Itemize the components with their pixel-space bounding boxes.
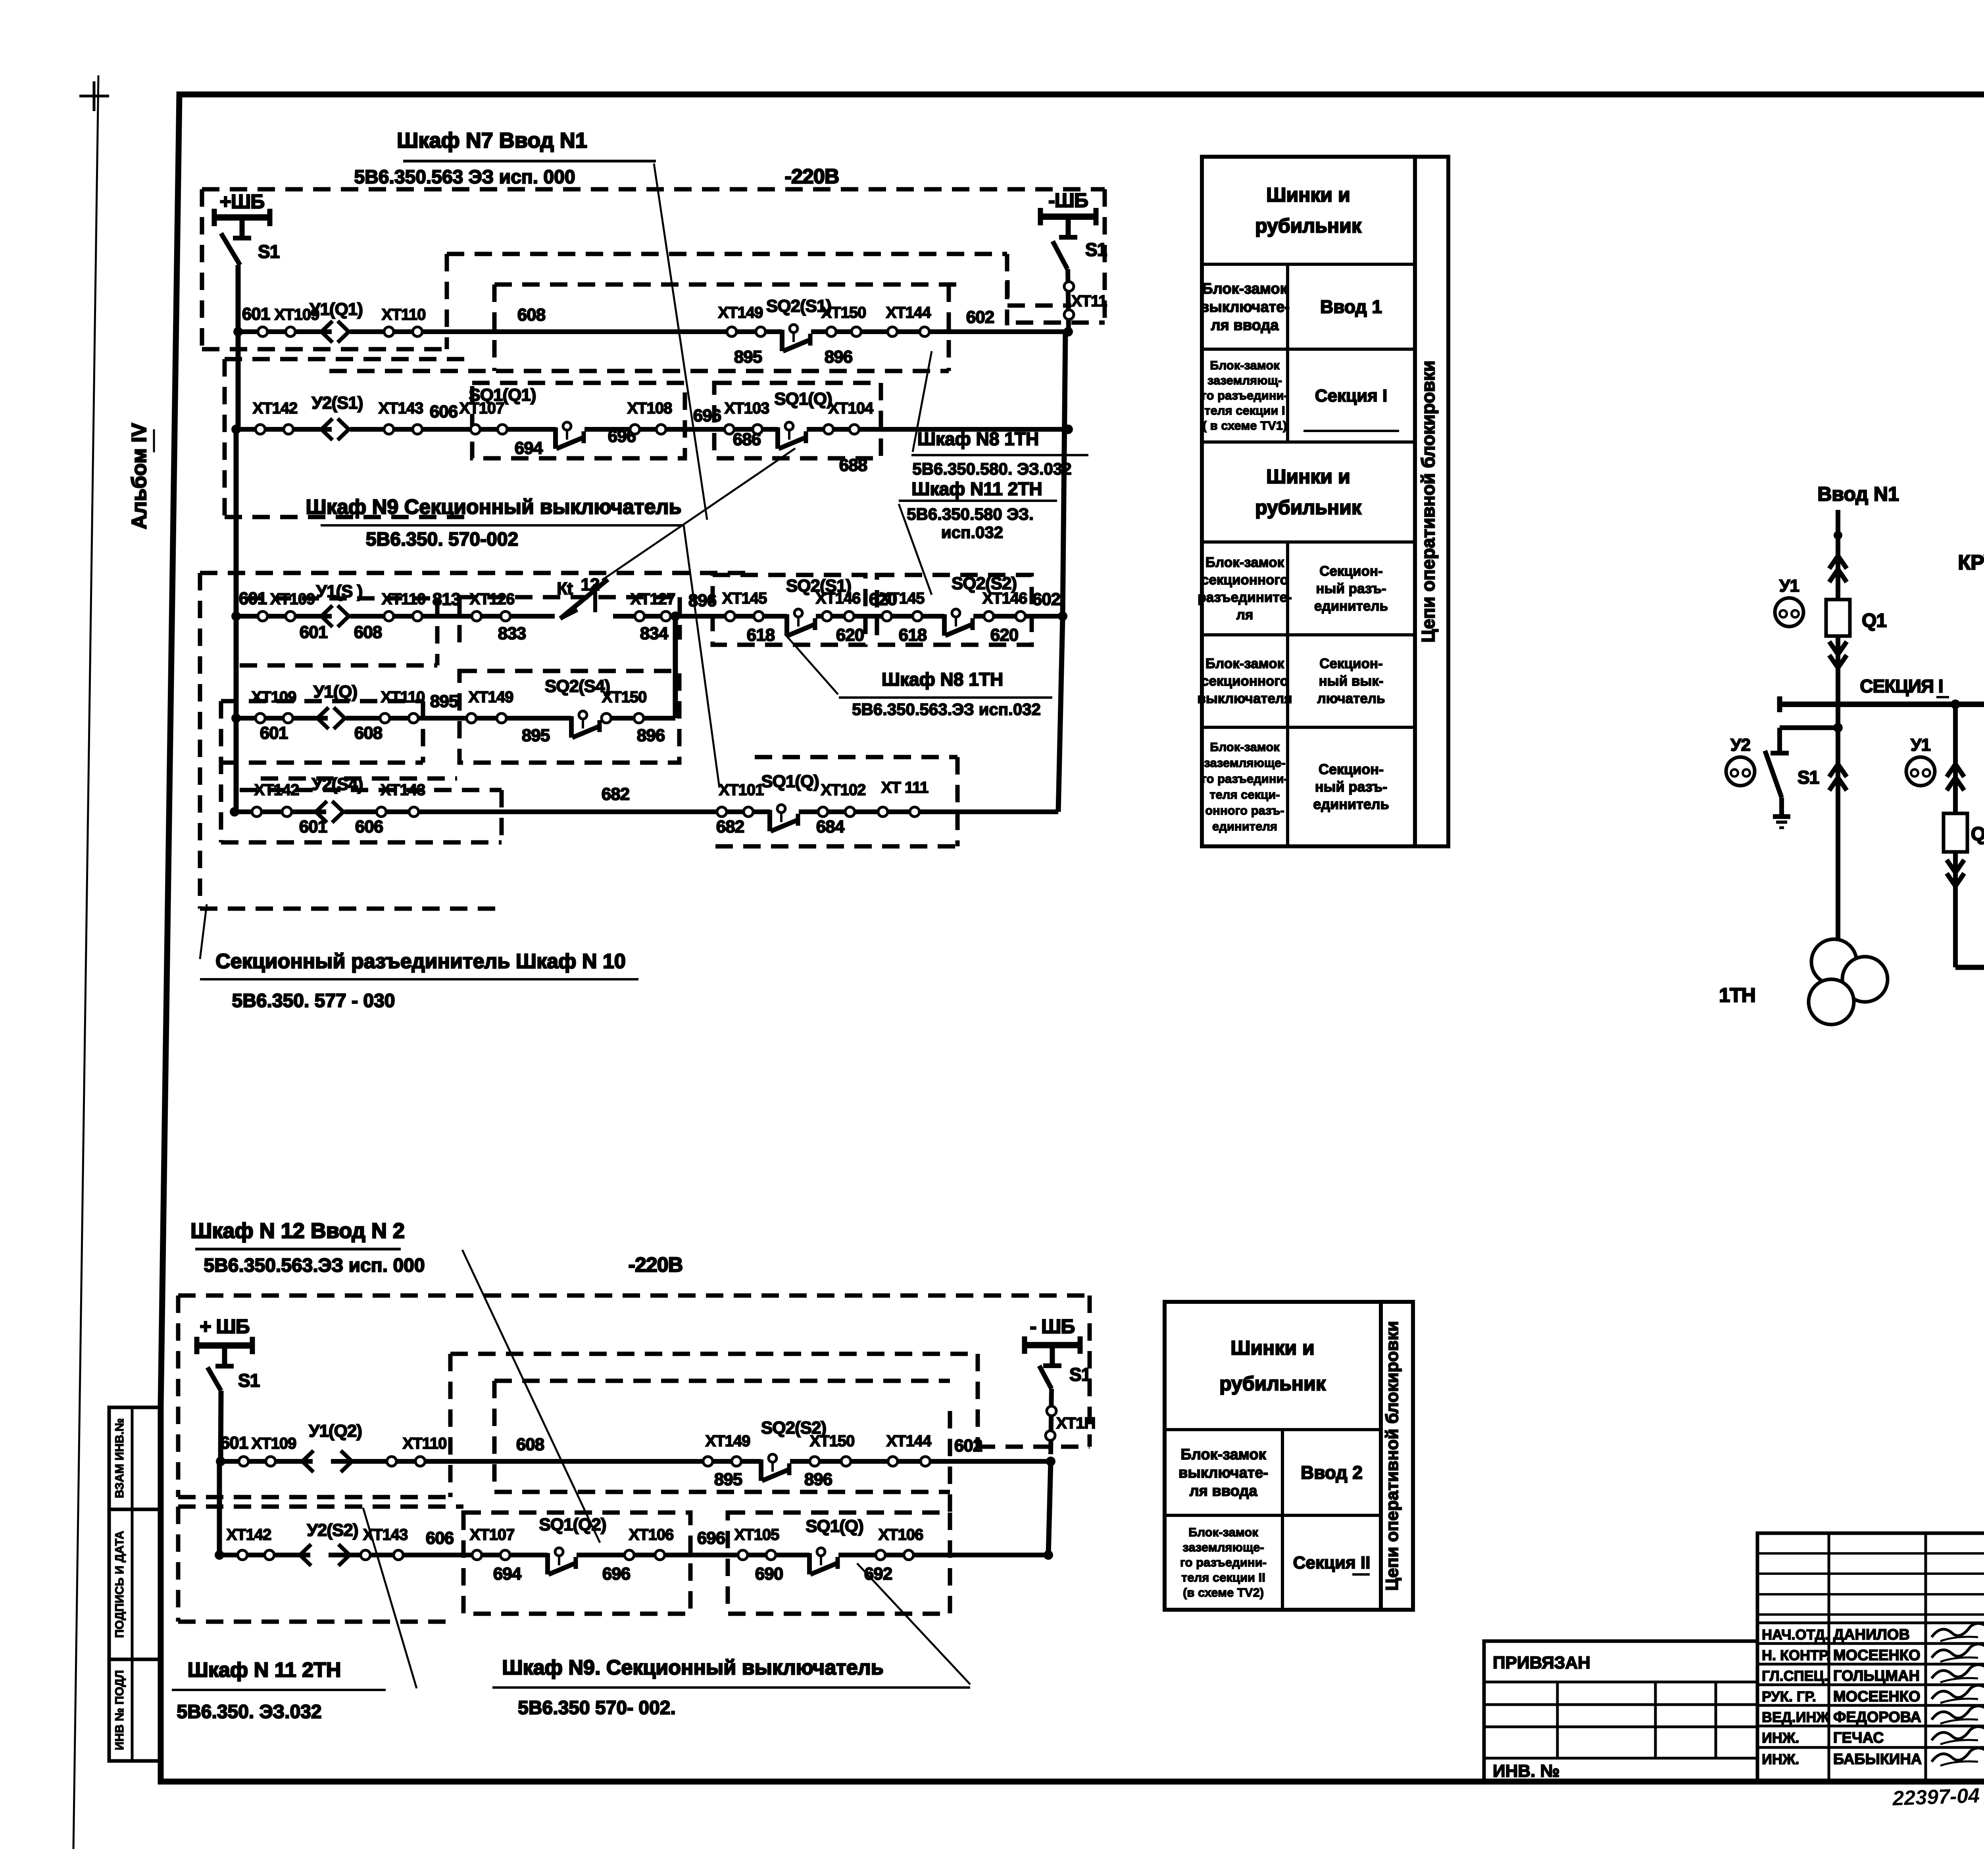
arrows down feeder1 <box>1829 642 1847 654</box>
svg-text:ХТ110: ХТ110 <box>403 1435 447 1452</box>
dashed box SQ2(S4) rung4 <box>459 671 679 763</box>
terminal XT111 rung5 <box>878 807 888 817</box>
svg-text:S1: S1 <box>1069 1364 1091 1385</box>
svg-text:834: 834 <box>640 624 669 643</box>
svg-text:+ ШБ: + ШБ <box>200 1315 249 1338</box>
switch SQ2(S1) rung1 <box>782 329 811 336</box>
svg-text:896: 896 <box>825 347 852 367</box>
svg-text:606: 606 <box>355 817 383 836</box>
contact U2(S4) <box>326 808 344 816</box>
middle branch wire <box>1953 704 1958 967</box>
switch SQ1(Q1) <box>556 426 584 434</box>
svg-text:ХТ110: ХТ110 <box>382 590 426 608</box>
title sectional disconnector Shkaf N10 <box>200 904 207 959</box>
svg-text:Шкаф N11 2ТН: Шкаф N11 2ТН <box>911 479 1042 499</box>
leader to Shkaf N8 second <box>785 634 838 694</box>
svg-text:У1(Q): У1(Q) <box>313 682 357 702</box>
contact U1(Q) <box>328 715 346 723</box>
svg-text:- ШБ: - ШБ <box>1030 1315 1075 1338</box>
svg-text:601: 601 <box>300 623 328 642</box>
switch SQ2(S2) bottom <box>761 1458 790 1466</box>
svg-text:ХТ150: ХТ150 <box>602 688 647 706</box>
svg-text:692: 692 <box>864 1564 892 1584</box>
switch SQ2(S4) <box>571 715 600 723</box>
svg-text:Цепи оперативной блокировки: Цепи оперативной блокировки <box>1382 1321 1402 1591</box>
svg-text:выключате-: выключате- <box>1178 1465 1268 1481</box>
svg-text:У1: У1 <box>1779 576 1799 596</box>
svg-text:608: 608 <box>516 1435 544 1454</box>
svg-text:ХТ110: ХТ110 <box>382 306 426 323</box>
svg-text:606: 606 <box>426 1528 454 1548</box>
svg-text:620: 620 <box>836 625 864 645</box>
svg-text:606: 606 <box>430 402 458 421</box>
svg-text:ВЕД.ИНЖ: ВЕД.ИНЖ <box>1762 1709 1830 1725</box>
contact U1(S) <box>332 613 350 621</box>
svg-text:696: 696 <box>693 406 721 425</box>
svg-text:ХТ142: ХТ142 <box>253 400 298 417</box>
dashed box rung4 left <box>221 699 423 703</box>
svg-text:12: 12 <box>581 575 600 594</box>
svg-text:ХТ150: ХТ150 <box>810 1432 855 1450</box>
sheet trim edge line (left) <box>73 75 98 1849</box>
svg-text:ный разъ-: ный разъ- <box>1316 581 1386 596</box>
terminal XT109 rung1 <box>258 327 267 336</box>
svg-text:ХТ110: ХТ110 <box>381 688 425 706</box>
svg-text:602: 602 <box>1032 590 1060 609</box>
table lower outer <box>1165 1302 1381 1610</box>
contact U2(S2) <box>310 1551 329 1559</box>
svg-text:ИНВ № ПОДЛ: ИНВ № ПОДЛ <box>113 1670 126 1750</box>
svg-text:ХТ105: ХТ105 <box>734 1526 780 1543</box>
svg-text:ХТ1Н: ХТ1Н <box>1056 1415 1095 1432</box>
svg-text:ПОДПИСЬ И ДАТА: ПОДПИСЬ И ДАТА <box>113 1531 126 1638</box>
dashed box row2 cabinet <box>225 357 472 361</box>
svg-text:5В6.350.563 ЭЗ исп. 000: 5В6.350.563 ЭЗ исп. 000 <box>354 167 575 188</box>
leader L1 title to SQ1(Q) and Kt <box>602 448 795 580</box>
svg-text:ный вык-: ный вык- <box>1319 673 1384 689</box>
svg-text:теля секции I: теля секции I <box>1204 404 1285 417</box>
dashed box Kt <box>459 595 680 600</box>
svg-text:ИНЖ.: ИНЖ. <box>1762 1751 1799 1767</box>
terminal XT143 rung2 <box>384 425 394 434</box>
svg-text:684: 684 <box>816 817 845 836</box>
terminal XT108 rung2 <box>630 425 640 434</box>
svg-text:S1: S1 <box>258 241 280 262</box>
svg-text:Секцион-: Секцион- <box>1319 761 1384 777</box>
svg-text:ХТ106: ХТ106 <box>629 1526 674 1543</box>
wire bottom rung1 <box>221 1459 1051 1464</box>
svg-text:Q1: Q1 <box>1862 610 1886 631</box>
switch S1 bottom-left <box>208 1367 221 1391</box>
leader Shkaf N11 bottom <box>363 1508 417 1688</box>
terminal XT150 bottom <box>810 1457 819 1466</box>
junction rung4 riser <box>671 611 680 621</box>
svg-text:ХТ150: ХТ150 <box>821 304 866 321</box>
svg-text:единитель: единитель <box>1313 796 1389 812</box>
dashed box B <box>494 283 957 287</box>
svg-text:го разъедини-: го разъедини- <box>1202 388 1288 402</box>
terminal XT109 rung4 <box>256 713 265 723</box>
dashed box C SQ1(Q1) <box>472 383 685 458</box>
svg-text:S1: S1 <box>238 1370 260 1391</box>
terminal XT102 rung5 <box>818 807 828 817</box>
svg-text:694: 694 <box>493 1564 522 1584</box>
terminal XT144 rung1 <box>888 327 897 336</box>
svg-text:896: 896 <box>637 726 665 745</box>
svg-text:608: 608 <box>354 623 382 642</box>
svg-text:SQ1(Q2): SQ1(Q2) <box>539 1515 606 1534</box>
svg-text:833: 833 <box>498 624 526 643</box>
svg-text:895: 895 <box>522 726 550 745</box>
svg-text:601: 601 <box>242 304 270 324</box>
svg-text:Блок-замок: Блок-замок <box>1210 740 1280 754</box>
dashed box cabinet N7 outer <box>202 187 1105 192</box>
svg-text:S1: S1 <box>1798 767 1819 788</box>
junction dots on buses <box>1951 700 1960 709</box>
dashed box cabinet N10 outer <box>200 571 750 575</box>
table upper narrow column <box>1415 157 1448 846</box>
terminal XT142 rung2 <box>256 425 265 434</box>
svg-text:выключателя: выключателя <box>1197 691 1292 706</box>
terminal XT110 rung3 <box>384 611 394 621</box>
svg-text:Н. КОНТР.: Н. КОНТР. <box>1762 1647 1830 1663</box>
stamp box VZAM INV No <box>109 1407 161 1509</box>
svg-text:исп.032: исп.032 <box>941 523 1003 542</box>
leader Shkaf N9 bottom <box>857 1563 970 1684</box>
svg-text:696: 696 <box>697 1528 725 1548</box>
svg-text:895: 895 <box>430 692 458 711</box>
leader L2 title to rung5 SQ1(Q) <box>684 525 719 788</box>
svg-text:ХТ142: ХТ142 <box>254 781 299 799</box>
svg-text:ИНЖ.: ИНЖ. <box>1762 1730 1799 1746</box>
dashed box rung3 left <box>246 596 437 601</box>
svg-text:ХТ109: ХТ109 <box>270 590 315 608</box>
svg-text:Альбом IV: Альбом IV <box>128 423 151 529</box>
svg-text:ХТ106: ХТ106 <box>879 1526 923 1543</box>
switch S1 bottom-right <box>1039 1366 1052 1389</box>
disconnector S1 with ground <box>1777 728 1782 753</box>
svg-text:5В6.350. ЭЗ.032: 5В6.350. ЭЗ.032 <box>177 1701 321 1722</box>
svg-text:Ввод N1: Ввод N1 <box>1817 483 1899 505</box>
table upper divider col <box>1286 264 1289 442</box>
svg-text:Блок-замок: Блок-замок <box>1205 555 1284 570</box>
switch SQ1(Q) bottom <box>809 1552 838 1560</box>
svg-text:ХТ149: ХТ149 <box>469 688 513 706</box>
svg-text:У1: У1 <box>1911 735 1930 755</box>
svg-text:единитель: единитель <box>1314 598 1388 614</box>
svg-text:Шкаф N 11 2ТН: Шкаф N 11 2ТН <box>188 1659 341 1682</box>
svg-text:ХТ143: ХТ143 <box>379 400 423 417</box>
terminal XT105 bottom <box>738 1550 748 1560</box>
svg-text:У1(Q2): У1(Q2) <box>309 1421 362 1441</box>
svg-text:Шкаф N 12 Ввод N 2: Шкаф N 12 Ввод N 2 <box>190 1219 405 1243</box>
svg-text:Блок-замок: Блок-замок <box>1210 358 1280 372</box>
svg-text:ХТ103: ХТ103 <box>725 400 769 417</box>
svg-text:Шинки и: Шинки и <box>1266 184 1350 206</box>
terminal XT146 rung3 a <box>822 611 832 621</box>
terminal XT101 rung5 <box>717 807 727 817</box>
contact U1(Q2) <box>313 1458 331 1466</box>
svg-text:РУК. ГР.: РУК. ГР. <box>1762 1688 1816 1705</box>
svg-text:ХТ146: ХТ146 <box>816 590 861 607</box>
terminal XT109 bottom <box>239 1457 248 1466</box>
stamp left box PRIVYAZAN <box>1484 1641 1757 1781</box>
terminal XT127 rung3 <box>635 611 644 621</box>
signature table <box>1757 1533 1984 1781</box>
svg-text:разъедините-: разъедините- <box>1198 590 1292 605</box>
terminal XT150 rung4 <box>602 713 611 723</box>
svg-text:заземляюще-: заземляюще- <box>1182 1540 1264 1554</box>
wire rung1 <box>238 329 1068 334</box>
svg-text:Ввод 1: Ввод 1 <box>1320 296 1382 317</box>
svg-text:5В6.350 570- 002.: 5В6.350 570- 002. <box>518 1697 676 1718</box>
wire S1 to XT111 bottom <box>1051 1389 1052 1454</box>
svg-text:ХТ109: ХТ109 <box>252 1435 296 1452</box>
wire rung3 <box>236 614 555 619</box>
switch SQ2(S1) rung3 <box>787 613 816 621</box>
dashed box bottom inner B <box>494 1379 950 1383</box>
svg-text:ХТ101: ХТ101 <box>719 781 764 799</box>
wire rung2 <box>236 427 1068 432</box>
switch SQ1(Q) <box>778 426 807 434</box>
svg-text:688: 688 <box>839 456 867 475</box>
svg-text:КРУ - 6 кВ: КРУ - 6 кВ <box>1958 551 1984 574</box>
terminal XT110 rung4 <box>380 713 390 723</box>
breaker Q <box>1944 813 1967 852</box>
signature squiggles <box>1932 1623 1984 1637</box>
leader to Shkaf N8 1TN <box>913 351 932 452</box>
svg-text:690: 690 <box>755 1564 783 1584</box>
breaker Q1 <box>1826 600 1850 636</box>
terminal XT104 rung2 <box>824 425 833 434</box>
svg-text:У2(S1): У2(S1) <box>312 393 363 413</box>
svg-text:У2: У2 <box>1730 735 1750 755</box>
leader line D1 from title <box>654 163 707 520</box>
svg-text:рубильник: рубильник <box>1255 215 1362 237</box>
svg-text:Блок-замок: Блок-замок <box>1202 281 1288 297</box>
svg-text:+ШБ: +ШБ <box>220 190 264 213</box>
svg-text:608: 608 <box>517 305 546 325</box>
table upper outer <box>1202 157 1415 846</box>
svg-text:рубильник: рубильник <box>1255 496 1362 519</box>
svg-text:S1: S1 <box>1085 239 1107 260</box>
svg-text:ХТ 111: ХТ 111 <box>881 779 929 796</box>
svg-text:заземляющ-: заземляющ- <box>1207 373 1282 387</box>
svg-text:618: 618 <box>899 625 927 645</box>
svg-text:Секцион-: Секцион- <box>1319 563 1382 579</box>
svg-text:ПРИВЯЗАН: ПРИВЯЗАН <box>1493 1653 1590 1672</box>
contact U1(Q1) <box>332 328 350 336</box>
dashed box SQ1(Q) rung5 <box>755 755 957 759</box>
dashed line between rung4 and rung5 <box>261 777 457 781</box>
svg-text:682: 682 <box>716 817 744 836</box>
wire bottom rung2 <box>219 1553 1048 1557</box>
svg-text:ХТ11: ХТ11 <box>1071 292 1107 310</box>
left bus wire <box>236 265 241 429</box>
terminal XT149 rung1 <box>727 327 736 336</box>
left bus bottom <box>221 1391 221 1461</box>
svg-text:НАЧ.ОТД.: НАЧ.ОТД. <box>1762 1626 1829 1643</box>
svg-text:ХТ127: ХТ127 <box>631 590 675 608</box>
svg-text:ХТ144: ХТ144 <box>886 304 932 321</box>
section I drop wire <box>1836 704 1840 940</box>
svg-text:ХТ142: ХТ142 <box>227 1526 271 1543</box>
wire rung5 <box>235 809 1058 814</box>
svg-text:го разъедини-: го разъедини- <box>1202 772 1288 786</box>
node dot feeder1 <box>1834 531 1842 540</box>
svg-text:686: 686 <box>733 430 761 449</box>
dashed box SQ1(Q) bottom <box>728 1513 950 1614</box>
stamp box PODPIS I DATA <box>109 1509 161 1659</box>
svg-text:Шкаф N9 Секционный выключате: Шкаф N9 Секционный выключатель <box>306 496 682 519</box>
table lower divider <box>1281 1430 1284 1610</box>
terminal XT145 rung3 a <box>725 611 735 621</box>
svg-text:ХТ146: ХТ146 <box>982 590 1027 607</box>
terminal XT149 rung4 <box>467 713 476 723</box>
terminal XT11 <box>1064 282 1074 291</box>
svg-text:онного разъ-: онного разъ- <box>1205 803 1284 817</box>
right bus wire <box>1063 332 1065 616</box>
svg-text:У1(Q1): У1(Q1) <box>310 300 363 319</box>
svg-text:SQ1(Q): SQ1(Q) <box>761 772 819 791</box>
wire rung4 <box>236 716 675 721</box>
svg-text:Секция I: Секция I <box>1315 386 1388 406</box>
terminal XT106 bottom b <box>876 1550 885 1560</box>
dashed box bottom outer <box>178 1294 1090 1298</box>
svg-text:Шкаф N7 Ввод N1: Шкаф N7 Ввод N1 <box>397 129 587 152</box>
svg-text:ДАНИЛОВ: ДАНИЛОВ <box>1833 1626 1910 1643</box>
svg-text:682: 682 <box>602 784 629 804</box>
wire S1 to XT11 <box>1068 269 1069 329</box>
terminal XT149 bottom <box>703 1457 713 1466</box>
contact Kt <box>560 579 608 619</box>
svg-text:694: 694 <box>515 438 543 458</box>
svg-text:ГЛ.СПЕЦ.: ГЛ.СПЕЦ. <box>1762 1668 1828 1684</box>
svg-text:У2(S4): У2(S4) <box>312 775 363 794</box>
svg-text:единителя: единителя <box>1212 819 1277 833</box>
svg-text:-ШБ: -ШБ <box>1048 189 1088 211</box>
switch S1 left <box>221 233 240 265</box>
svg-text:SQ2(S4): SQ2(S4) <box>545 677 610 696</box>
terminal XT107 rung2 <box>471 425 480 434</box>
svg-text:Q: Q <box>1971 824 1984 845</box>
svg-text:895: 895 <box>714 1470 742 1489</box>
svg-text:601: 601 <box>239 589 267 608</box>
svg-text:Шкаф N8 1ТН: Шкаф N8 1ТН <box>917 429 1039 449</box>
svg-text:ХТ104: ХТ104 <box>829 400 874 417</box>
svg-text:696: 696 <box>602 1564 630 1584</box>
trim cross mark top-left <box>79 95 109 98</box>
svg-text:-220В: -220В <box>785 165 839 188</box>
svg-text:608: 608 <box>354 723 383 743</box>
svg-text:Блок-замок: Блок-замок <box>1205 656 1284 671</box>
terminal XT103 rung2 <box>725 425 734 434</box>
terminal XT142 bottom <box>238 1550 247 1560</box>
svg-text:секционного: секционного <box>1201 673 1288 689</box>
svg-text:ХТ143: ХТ143 <box>381 781 425 799</box>
svg-text:Цепи оперативной блокировки: Цепи оперативной блокировки <box>1418 361 1438 643</box>
svg-text:5В6.350. 570-002: 5В6.350. 570-002 <box>366 529 518 550</box>
svg-text:-220В: -220В <box>629 1253 683 1276</box>
svg-text:теля секци-: теля секци- <box>1209 788 1280 802</box>
svg-text:895: 895 <box>734 347 762 367</box>
terminal XT110 bottom <box>387 1457 396 1466</box>
svg-text:ля ввода: ля ввода <box>1211 317 1279 334</box>
dashed box SQ2(S1) rung3 <box>713 575 865 645</box>
svg-text:5В6.350.580 ЭЗ.: 5В6.350.580 ЭЗ. <box>907 505 1034 523</box>
svg-text:ВЗАМ ИНВ.№: ВЗАМ ИНВ.№ <box>113 1418 126 1498</box>
svg-text:ХТ109: ХТ109 <box>252 688 296 706</box>
svg-text:896: 896 <box>688 591 716 610</box>
dashed box SQ1(Q2) bottom <box>463 1513 690 1614</box>
svg-text:Шинки и: Шинки и <box>1230 1337 1315 1359</box>
svg-text:Секционный разъединитель Шк: Секционный разъединитель Шкаф N 10 <box>215 950 626 973</box>
svg-text:1ТН: 1ТН <box>1719 984 1755 1006</box>
svg-text:ный разъ-: ный разъ- <box>1315 778 1387 795</box>
svg-text:Шкаф N8 1ТН: Шкаф N8 1ТН <box>882 669 1003 690</box>
switch S1 right <box>1053 241 1067 269</box>
bottom tie wire <box>1955 965 1984 970</box>
svg-text:(в схеме ТV2): (в схеме ТV2) <box>1183 1586 1264 1599</box>
svg-text:Блок-замок: Блок-замок <box>1180 1446 1266 1463</box>
terminal XT144 bottom <box>888 1457 898 1466</box>
dashed box SQ2(S2) rung3 <box>877 575 1032 645</box>
svg-text:У1(S ): У1(S ) <box>316 582 363 601</box>
svg-text:22397-04: 22397-04 <box>1892 1784 1980 1810</box>
svg-text:го разъедини-: го разъедини- <box>1180 1555 1267 1569</box>
svg-text:602: 602 <box>966 308 994 327</box>
svg-text:Шинки и: Шинки и <box>1266 465 1350 488</box>
contact U2(S1) <box>332 426 350 434</box>
terminal XT145 rung3 b <box>882 611 892 621</box>
svg-text:5В6.350. 577 - 030: 5В6.350. 577 - 030 <box>232 990 395 1011</box>
feeder 1 wire <box>1836 510 1840 704</box>
svg-text:Ввод 2: Ввод 2 <box>1301 1462 1363 1483</box>
svg-text:ХТ149: ХТ149 <box>706 1432 750 1450</box>
svg-text:813: 813 <box>433 590 460 609</box>
svg-text:SQ1(Q1): SQ1(Q1) <box>469 385 536 405</box>
svg-text:ХТ108: ХТ108 <box>627 400 673 417</box>
svg-text:ХТ149: ХТ149 <box>718 304 763 321</box>
svg-text:Секцион-: Секцион- <box>1319 656 1382 671</box>
svg-text:рубильник: рубильник <box>1219 1372 1326 1395</box>
svg-text:( в схеме ТV1): ( в схеме ТV1) <box>1203 419 1287 432</box>
switch SQ1(Q) rung5 <box>770 809 799 817</box>
leader title N12 <box>462 1250 600 1543</box>
dashed box rung5 left <box>240 788 502 792</box>
dashed box bottom rung2 outer <box>178 1505 463 1509</box>
svg-text:ХТ145: ХТ145 <box>880 590 925 607</box>
svg-text:SQ1(Q): SQ1(Q) <box>774 389 832 409</box>
svg-text:601: 601 <box>260 723 288 743</box>
riser rung4 to rung3 <box>673 616 678 718</box>
terminal XT126 rung3 <box>472 611 481 621</box>
arrows up feeder1 <box>1829 556 1847 569</box>
svg-text:ХТ107: ХТ107 <box>470 1526 515 1543</box>
svg-text:ИНВ. №: ИНВ. № <box>1493 1761 1560 1781</box>
arrows down mid branch <box>1947 860 1964 873</box>
svg-text:SQ1(Q): SQ1(Q) <box>806 1517 863 1536</box>
svg-text:секционного: секционного <box>1201 572 1288 588</box>
transformer 1TN <box>1811 939 1857 984</box>
dashed box A <box>447 252 1007 256</box>
svg-text:ля: ля <box>1236 607 1253 623</box>
svg-text:618: 618 <box>747 625 775 645</box>
terminal XT107 bottom <box>472 1550 482 1560</box>
svg-text:ХТ102: ХТ102 <box>821 781 866 799</box>
stamp box INV No PODL <box>109 1659 161 1761</box>
svg-text:896: 896 <box>804 1470 832 1489</box>
